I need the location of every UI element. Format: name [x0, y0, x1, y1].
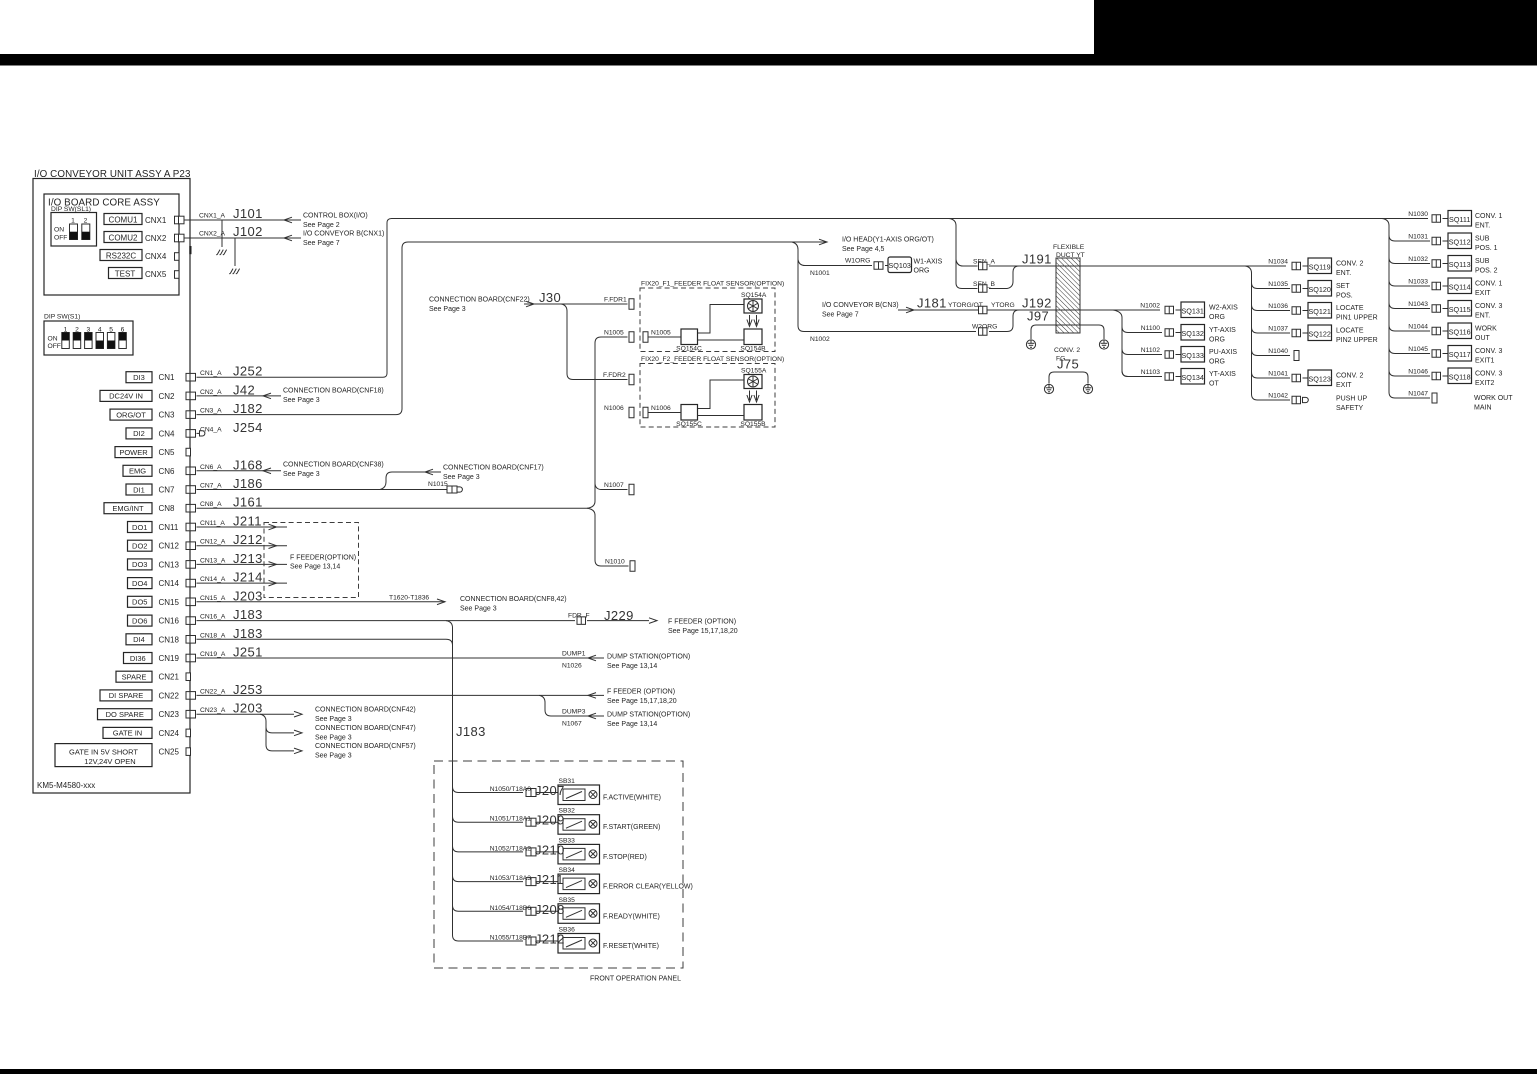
svg-text:SQ120: SQ120: [1309, 285, 1331, 294]
svg-text:N1001: N1001: [810, 270, 830, 277]
svg-text:CONNECTION BOARD(CNF47): CONNECTION BOARD(CNF47): [315, 725, 416, 732]
svg-text:PUSH UP: PUSH UP: [1336, 396, 1367, 403]
svg-text:J42: J42: [233, 382, 255, 397]
svg-text:J97: J97: [1027, 309, 1049, 324]
connector N1006 inside: [643, 407, 648, 418]
wire fork up N1005: [587, 337, 628, 508]
wire J252 CN1 main sensor bus: [197, 219, 1429, 378]
svg-text:CN14_A: CN14_A: [200, 576, 226, 583]
connector N1042: [1292, 396, 1301, 404]
sensor SQ121: [1308, 303, 1332, 319]
svg-text:J251: J251: [233, 645, 263, 660]
svg-text:F FEEDER (OPTION): F FEEDER (OPTION): [607, 688, 675, 695]
svg-text:N1006: N1006: [651, 405, 671, 412]
svg-text:J254: J254: [233, 420, 263, 435]
label box DO SPARE CN23: [98, 709, 153, 720]
connector J210: [526, 848, 536, 856]
svg-text:KM5-M4580-xxx: KM5-M4580-xxx: [37, 781, 95, 790]
wire J161 CN8 to N bus: [197, 507, 588, 509]
wire branch N1103: [1122, 371, 1162, 377]
svg-text:SB32: SB32: [559, 808, 576, 815]
svg-text:SQ118: SQ118: [1449, 373, 1471, 382]
svg-text:CONNECTION BOARD(CNF57): CONNECTION BOARD(CNF57): [315, 743, 416, 750]
sensor SQ131: [1181, 302, 1205, 318]
svg-text:N1046: N1046: [1408, 369, 1428, 376]
svg-text:DI3: DI3: [133, 373, 145, 382]
svg-text:SQ133: SQ133: [1182, 351, 1204, 360]
svg-text:J211: J211: [233, 514, 262, 529]
svg-text:SAFETY: SAFETY: [1336, 405, 1364, 412]
svg-text:MAIN: MAIN: [1474, 405, 1492, 412]
wire branch SEN_A: [956, 260, 978, 267]
wire SQ155A to SQ155C: [698, 380, 745, 409]
sensor SQ119: [1308, 258, 1332, 274]
sensor SQ154B box: [744, 329, 762, 345]
svg-text:CN21: CN21: [159, 673, 180, 682]
connector FDR_F: [577, 617, 586, 625]
svg-text:1: 1: [71, 218, 75, 225]
connector N1031: [1432, 237, 1441, 245]
svg-text:See Page 3: See Page 3: [315, 753, 352, 760]
connector SEN_B: [979, 285, 988, 293]
wire branch N1044: [1389, 325, 1430, 331]
wire branch N1036: [1252, 305, 1291, 311]
label box ORG/OT CN3: [110, 409, 152, 420]
arrows into SQ155B: [749, 391, 751, 401]
svg-text:J203: J203: [233, 701, 263, 716]
svg-text:OFF: OFF: [48, 343, 61, 350]
connector N1015 plug: [447, 486, 457, 493]
FIX20_F1_FEEDER FLOAT SENSOR(OPTION) dashed box: [640, 288, 775, 352]
svg-text:DUMP3: DUMP3: [562, 709, 586, 716]
svg-text:F FEEDER(OPTION): F FEEDER(OPTION): [290, 555, 356, 562]
label box DO5 CN15: [128, 596, 153, 607]
svg-text:CONV. 2: CONV. 2: [1054, 347, 1080, 354]
svg-text:CN24: CN24: [159, 729, 180, 738]
svg-text:F.ACTIVE(WHITE): F.ACTIVE(WHITE): [603, 795, 661, 802]
wire N1005 to SQ154C: [648, 336, 681, 338]
label box EMG/INT CN8: [104, 503, 152, 514]
svg-text:ENT.: ENT.: [1475, 313, 1490, 320]
svg-text:CNX2: CNX2: [145, 234, 167, 243]
svg-text:EXIT: EXIT: [1475, 290, 1491, 297]
wire branch N1031: [1389, 235, 1430, 241]
connector J209: [526, 818, 536, 826]
connector W1ORG: [874, 262, 883, 270]
label box DI2 CN4: [126, 428, 152, 439]
svg-text:ON: ON: [54, 227, 64, 234]
connector CNX2: [175, 234, 185, 242]
wire panel row J211: [453, 876, 524, 882]
wire J183 riser to front panel: [446, 621, 523, 941]
svg-text:N1032: N1032: [1408, 256, 1428, 263]
svg-text:J183: J183: [456, 724, 486, 739]
wire branch N1032: [1389, 258, 1430, 264]
sensor SQ133: [1181, 347, 1205, 363]
node far right bus: [1382, 219, 1430, 399]
svg-text:SQ122: SQ122: [1309, 330, 1331, 339]
svg-text:CN6_A: CN6_A: [200, 464, 222, 471]
svg-text:F.FDR1: F.FDR1: [604, 297, 627, 304]
svg-text:I/O HEAD(Y1-AXIS ORG/OT): I/O HEAD(Y1-AXIS ORG/OT): [842, 237, 934, 244]
svg-text:CN25: CN25: [159, 748, 180, 757]
sensor SQ114: [1448, 278, 1472, 294]
svg-text:FIX20_F1_FEEDER FLOAT SENSOR(O: FIX20_F1_FEEDER FLOAT SENSOR(OPTION): [641, 281, 784, 288]
DIP SW(SL1) box: [51, 213, 97, 247]
wire J253 CN22 F feeder: [197, 694, 605, 696]
wire branch N1033: [1389, 280, 1430, 286]
connector N1041: [1292, 374, 1301, 382]
svg-text:DO5: DO5: [132, 598, 147, 607]
connector J207: [526, 789, 536, 797]
svg-text:F.FDR2: F.FDR2: [603, 372, 626, 379]
svg-text:N1015: N1015: [428, 481, 448, 488]
svg-text:N1047: N1047: [1408, 391, 1428, 398]
svg-text:DI SPARE: DI SPARE: [109, 691, 143, 700]
wire branch CNF57: [266, 727, 294, 751]
svg-text:CONV. 1: CONV. 1: [1475, 281, 1502, 288]
svg-text:N1054/T18B6: N1054/T18B6: [490, 905, 532, 912]
svg-text:FIX20_F2_FEEDER FLOAT SENSOR(O: FIX20_F2_FEEDER FLOAT SENSOR(OPTION): [641, 356, 784, 363]
svg-text:N1100: N1100: [1141, 325, 1160, 332]
svg-text:CN1_A: CN1_A: [200, 370, 222, 377]
ground from J101 wire: [221, 220, 223, 247]
svg-text:SQ134: SQ134: [1182, 373, 1204, 382]
svg-text:CN12_A: CN12_A: [200, 539, 226, 546]
connector N1036: [1292, 307, 1301, 315]
wire branch N1043: [1389, 303, 1430, 309]
wire J251 CN19 dump station: [197, 657, 605, 659]
svg-text:EXIT1: EXIT1: [1475, 358, 1495, 365]
svg-text:N1045: N1045: [1408, 346, 1428, 353]
svg-text:J229: J229: [604, 608, 634, 623]
svg-text:ON: ON: [48, 336, 58, 343]
svg-text:F.ERROR CLEAR(YELLOW): F.ERROR CLEAR(YELLOW): [603, 884, 693, 891]
svg-text:N1042: N1042: [1268, 393, 1288, 400]
connector CN2: [186, 392, 196, 400]
label box DI1 CN7: [126, 484, 152, 495]
connector CNX1: [175, 216, 185, 224]
svg-text:T1620-T1836: T1620-T1836: [389, 595, 429, 602]
wire branch N1045: [1389, 348, 1430, 354]
FRONT OPERATION PANEL dashed box: [434, 761, 683, 968]
svg-text:See Page 13,14: See Page 13,14: [607, 721, 657, 728]
svg-text:See Page 3: See Page 3: [315, 735, 352, 742]
svg-text:SQ121: SQ121: [1309, 307, 1331, 316]
svg-text:SQ123: SQ123: [1309, 375, 1331, 384]
label box POWER CN5: [115, 447, 152, 458]
wire J191 line: [989, 265, 1286, 267]
arrows into SQ154B: [749, 315, 751, 325]
svg-text:PIN2 UPPER: PIN2 UPPER: [1336, 337, 1378, 344]
svg-text:ORG: ORG: [1209, 359, 1225, 366]
svg-text:J214: J214: [233, 570, 263, 585]
svg-text:SB36: SB36: [559, 927, 576, 934]
svg-text:See Page 3: See Page 3: [315, 716, 352, 723]
svg-text:CN13_A: CN13_A: [200, 557, 226, 564]
wire CN13 to F feeder option: [197, 563, 288, 565]
svg-text:CONV. 2: CONV. 2: [1336, 261, 1363, 268]
connector J208: [526, 907, 536, 915]
svg-text:J253: J253: [233, 682, 263, 697]
svg-text:YTORG/OT: YTORG/OT: [948, 302, 983, 309]
svg-text:W1-AXIS: W1-AXIS: [914, 259, 943, 266]
svg-text:POS. 1: POS. 1: [1475, 245, 1498, 252]
connector SEN_A: [979, 262, 988, 270]
svg-text:YT-AXIS: YT-AXIS: [1209, 327, 1236, 334]
svg-text:CN7_A: CN7_A: [200, 483, 222, 490]
svg-text:EXIT: EXIT: [1336, 382, 1352, 389]
svg-text:PIN1 UPPER: PIN1 UPPER: [1336, 315, 1378, 322]
svg-text:N1026: N1026: [562, 663, 582, 670]
svg-text:POS. 2: POS. 2: [1475, 268, 1498, 275]
svg-text:CONV. 2: CONV. 2: [1336, 373, 1363, 380]
svg-text:ORG: ORG: [1209, 337, 1225, 344]
wire branch N1035: [1252, 283, 1291, 289]
svg-text:SQ113: SQ113: [1449, 260, 1471, 269]
sensor SQ116: [1448, 323, 1472, 339]
wire W2ORG merge to J192: [989, 310, 1019, 332]
connector CN15: [186, 598, 196, 606]
svg-text:J213: J213: [233, 551, 263, 566]
svg-text:OUT: OUT: [1475, 335, 1491, 342]
sensor SQ103 W1-AXIS ORG: [888, 257, 912, 273]
svg-text:J181: J181: [917, 296, 947, 311]
svg-text:SQ119: SQ119: [1309, 263, 1331, 272]
svg-text:CN23: CN23: [159, 710, 180, 719]
footer black bar: [0, 1069, 1537, 1074]
svg-text:PU-AXIS: PU-AXIS: [1209, 349, 1237, 356]
svg-text:YT-AXIS: YT-AXIS: [1209, 371, 1236, 378]
connector J211: [526, 878, 536, 886]
wire branch N1040: [1252, 350, 1291, 356]
wire branch N1041: [1252, 372, 1291, 378]
connector CN21: [186, 673, 191, 681]
svg-text:N1103: N1103: [1141, 369, 1160, 376]
wire N1006 to SQ155C: [648, 412, 681, 414]
svg-text:N1005: N1005: [604, 330, 624, 337]
svg-text:RS232C: RS232C: [106, 251, 136, 260]
svg-text:CN7: CN7: [159, 486, 176, 495]
svg-text:ENT.: ENT.: [1475, 223, 1490, 230]
svg-text:See Page 3: See Page 3: [283, 471, 320, 478]
sensor SQ134: [1181, 369, 1205, 385]
svg-text:F.READY(WHITE): F.READY(WHITE): [603, 913, 660, 920]
svg-text:J101: J101: [233, 206, 263, 221]
svg-text:DO4: DO4: [132, 579, 147, 588]
svg-text:CN2: CN2: [159, 392, 176, 401]
svg-text:DI36: DI36: [130, 654, 146, 663]
label box GATE IN 5V SHORT CN25: [55, 744, 152, 767]
svg-text:N1051/T18A1: N1051/T18A1: [490, 816, 532, 823]
svg-text:SPARE: SPARE: [122, 673, 147, 682]
FIX20_F2_FEEDER FLOAT SENSOR(OPTION) dashed box: [640, 364, 775, 428]
svg-text:SB31: SB31: [559, 778, 576, 785]
sensor SQ155B box: [744, 405, 762, 421]
svg-text:DO2: DO2: [132, 542, 147, 551]
svg-text:N1052/T18A2: N1052/T18A2: [490, 845, 532, 852]
svg-text:N1055/T18B7: N1055/T18B7: [490, 935, 532, 942]
svg-text:See Page 15,17,18,20: See Page 15,17,18,20: [668, 628, 738, 635]
svg-text:CN13: CN13: [159, 560, 180, 569]
svg-text:CN5: CN5: [159, 448, 176, 457]
label box DI3 CN1: [126, 372, 152, 383]
svg-text:CN14: CN14: [159, 579, 180, 588]
svg-text:CN19_A: CN19_A: [200, 651, 226, 658]
svg-text:SUB: SUB: [1475, 236, 1490, 243]
svg-text:I/O CONVEYOR B(CNX1): I/O CONVEYOR B(CNX1): [303, 231, 384, 238]
wire J102 CNX2 to I/O conveyor B: [185, 237, 302, 239]
wire J183 CN16 to J229: [197, 620, 576, 622]
label box SPARE CN21: [116, 671, 152, 682]
svg-text:SQ155B: SQ155B: [740, 421, 766, 428]
wire J182 CN3 to I/O head: [197, 242, 828, 415]
connector N1040: [1294, 351, 1299, 361]
connector CNX4: [175, 253, 180, 261]
svg-text:N1050/T18A0: N1050/T18A0: [490, 786, 532, 793]
svg-text:LOCATE: LOCATE: [1336, 328, 1364, 335]
svg-text:CONNECTION BOARD(CNF17): CONNECTION BOARD(CNF17): [443, 465, 544, 472]
label box DO4 CN14: [128, 578, 153, 589]
svg-text:See Page 7: See Page 7: [822, 312, 859, 319]
svg-text:J168: J168: [233, 457, 263, 472]
connector CN16: [186, 617, 196, 625]
connector N1010: [630, 561, 635, 572]
TEST box: [109, 268, 143, 279]
F FEEDER OPTION dashed box: [264, 523, 359, 598]
svg-text:CN2_A: CN2_A: [200, 389, 222, 396]
svg-text:SB34: SB34: [559, 867, 576, 874]
svg-text:N1005: N1005: [651, 330, 671, 337]
svg-text:N1053/T18A3: N1053/T18A3: [490, 875, 532, 882]
header black box top right: [1094, 0, 1537, 56]
wire J181/J192 line: [898, 309, 1160, 311]
wire J42 CN2 to connection board CNF18: [197, 395, 282, 397]
wire branch to SEN_A/SEN_B: [949, 219, 978, 289]
svg-text:CONV. 1: CONV. 1: [1475, 213, 1502, 220]
connector CN8: [186, 504, 196, 512]
wire branch N1007: [595, 484, 628, 490]
connector F.FDR1: [629, 299, 634, 310]
connector CN22: [186, 692, 196, 700]
DIP switch S1-3: [85, 333, 93, 349]
svg-text:J183: J183: [233, 626, 263, 641]
svg-text:N1036: N1036: [1268, 303, 1288, 310]
wire panel row J207: [453, 787, 524, 793]
connector N1045: [1432, 350, 1441, 358]
svg-text:J212: J212: [233, 532, 263, 547]
svg-text:CN16_A: CN16_A: [200, 614, 226, 621]
svg-text:CN15: CN15: [159, 598, 180, 607]
DIP SW(S1) box: [44, 321, 133, 355]
label box DO6 CN16: [128, 615, 153, 626]
svg-text:CN12: CN12: [159, 542, 180, 551]
connector N1043: [1432, 305, 1441, 313]
connector N1007: [629, 484, 634, 495]
svg-text:SQ154C: SQ154C: [676, 346, 702, 353]
svg-text:J183: J183: [233, 607, 263, 622]
svg-text:OFF: OFF: [54, 235, 67, 242]
svg-text:See Page 13,14: See Page 13,14: [607, 663, 657, 670]
wire CN18 join: [197, 639, 453, 645]
label box DI4 CN18: [126, 634, 152, 645]
connector CN11: [186, 523, 196, 531]
svg-text:N1037: N1037: [1268, 326, 1288, 333]
sensor SQ113: [1448, 256, 1472, 272]
wire branch DUMP3: [539, 695, 604, 716]
node SQ119 bus: [1245, 266, 1290, 400]
svg-text:J191: J191: [1022, 252, 1052, 267]
svg-text:CN1: CN1: [159, 373, 176, 382]
svg-text:SQ131: SQ131: [1182, 307, 1204, 316]
sensor SQ155C box: [681, 405, 698, 421]
svg-text:SQ103: SQ103: [889, 261, 911, 270]
sensor SQ120: [1308, 281, 1332, 297]
connector YTORG: [979, 306, 988, 314]
svg-text:N1030: N1030: [1408, 211, 1428, 218]
svg-text:CONNECTION BOARD(CNF18): CONNECTION BOARD(CNF18): [283, 388, 384, 395]
svg-text:N1040: N1040: [1268, 348, 1288, 355]
svg-text:ORG: ORG: [914, 268, 930, 275]
connector N1006 outside: [629, 407, 634, 418]
svg-text:See Page 13,14: See Page 13,14: [290, 564, 340, 571]
svg-text:WORK: WORK: [1475, 326, 1497, 333]
svg-text:CONTROL BOX(I/O): CONTROL BOX(I/O): [303, 213, 368, 220]
svg-text:DO3: DO3: [132, 560, 147, 569]
svg-text:F.STOP(RED): F.STOP(RED): [603, 854, 647, 861]
connector F.FDR2: [629, 374, 634, 385]
node SQ131 bus: [1113, 310, 1162, 377]
svg-text:CNX1: CNX1: [145, 216, 167, 225]
sensor SQ132: [1181, 325, 1205, 341]
connector N1002: [1165, 306, 1174, 314]
wire branch N1100: [1122, 327, 1162, 333]
connector tick on outer box edge: [189, 246, 191, 254]
svg-text:SQ115: SQ115: [1449, 305, 1471, 314]
svg-text:GATE IN: GATE IN: [113, 729, 142, 738]
connector N1034: [1292, 262, 1301, 270]
svg-text:CN18_A: CN18_A: [200, 632, 226, 639]
svg-text:FLEXIBLE: FLEXIBLE: [1053, 244, 1085, 251]
label box DO2 CN12: [128, 540, 153, 551]
svg-text:CN3_A: CN3_A: [200, 408, 222, 415]
svg-text:N1010: N1010: [605, 559, 625, 566]
svg-text:OT: OT: [1209, 381, 1219, 388]
connector N1044: [1432, 327, 1441, 335]
connector CN7: [186, 486, 196, 494]
svg-text:CN6: CN6: [159, 467, 176, 476]
connector CN6: [186, 467, 196, 475]
connector N1102: [1165, 351, 1174, 359]
svg-text:DIP SW(S1): DIP SW(S1): [44, 314, 80, 321]
label box EMG CN6: [123, 465, 152, 476]
DIP switch SL1-2: [82, 224, 90, 240]
label box DO1 CN11: [128, 522, 153, 533]
wire J168 CN6 to connection board CNF38: [197, 470, 282, 472]
svg-text:CN16: CN16: [159, 617, 180, 626]
svg-text:SQ132: SQ132: [1182, 329, 1204, 338]
wire J101 CNX1 to control box: [185, 219, 302, 221]
wire branch to F.FDR2: [561, 304, 628, 380]
svg-text:N1035: N1035: [1268, 281, 1288, 288]
svg-text:CN11: CN11: [159, 523, 179, 532]
connector N1047: [1432, 393, 1437, 403]
sensor SQ117: [1448, 346, 1472, 362]
ground from J102 wire: [234, 238, 236, 266]
connector CN4: [186, 430, 196, 438]
svg-text:DO6: DO6: [132, 616, 147, 625]
connector N1032: [1432, 260, 1441, 268]
